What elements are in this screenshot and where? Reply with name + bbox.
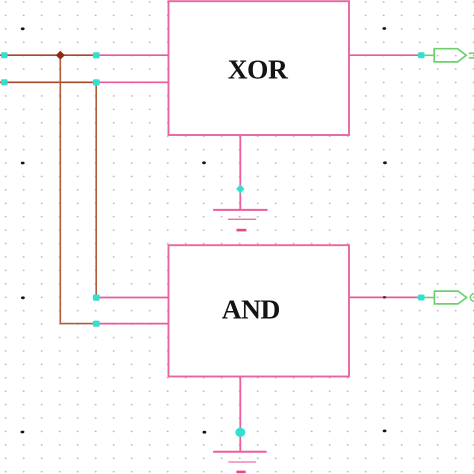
ground symbol under XOR : bar 3 — [237, 229, 247, 232]
grid major dot (22.7,163) — [21, 162, 25, 165]
AND gate box U2 — [169, 245, 350, 376]
wire: AND output pink segment — [349, 296, 421, 298]
clipped net label at right edge (AND output) — [470, 294, 474, 302]
wire: net B branch pink segment into AND input 1 — [96, 297, 168, 299]
ground symbol under AND : bar 2 — [228, 461, 256, 463]
wire: net A branch pink segment into AND input 2 — [96, 323, 168, 325]
grid major dot (383.7,297.2) over output wire — [383, 296, 386, 299]
wire: net B pink segment into XOR input 2 — [96, 81, 168, 83]
wire: net A branch horizontal to AND input 2 (brown) — [60, 323, 96, 325]
wire: AND ground stub (pink vertical) — [239, 377, 241, 452]
wire: XOR ground stub (pink vertical) — [239, 135, 241, 210]
grid major dot (22.9,297.8) — [21, 296, 25, 299]
wire: XOR output pink segment — [349, 54, 421, 56]
node: pin square net B at AND input 1 — [93, 295, 100, 301]
node: pin square at XOR output — [418, 52, 425, 58]
ground symbol under XOR : bar 2 — [228, 218, 256, 220]
grid major dot (385,163) — [383, 161, 387, 164]
node: pin square net B at XOR input 2 — [93, 79, 100, 85]
grid major dot (384.6,430.9) — [383, 430, 387, 433]
svg-text:XOR: XOR — [228, 54, 289, 85]
grid major dot (22.4,432) — [21, 431, 25, 434]
output port symbol (sum) after XOR — [434, 49, 466, 62]
wire: net A vertical branch down (brown) — [59, 55, 61, 323]
clipped net label at right edge (XOR output) — [469, 52, 474, 54]
wire: net A pink segment into XOR input 1 — [96, 54, 168, 56]
ground symbol under AND : bar 1 — [213, 451, 267, 453]
grid major dot (383.7,28.8) — [382, 27, 386, 30]
wire: short green lead to AND output port — [425, 297, 435, 299]
ground symbol under XOR : bar 1 — [213, 209, 268, 211]
node: pin square net B at left edge — [1, 79, 8, 85]
svg-text:AND: AND — [222, 294, 280, 325]
ground symbol under AND : bar 3 — [236, 471, 245, 474]
wire: short green lead to XOR output port — [425, 54, 435, 56]
grid major dot (22.7,28.8) — [21, 27, 25, 30]
wire: net B vertical branch down (brown) — [95, 82, 97, 297]
node: pin square at AND output — [418, 295, 425, 301]
grid major dot (204.4,432.2) — [203, 431, 207, 434]
wire: net A horizontal segment from left edge (brown) — [0, 54, 96, 56]
node: pin square net A at left edge — [1, 52, 8, 58]
node: pin marker on AND ground stub — [235, 428, 245, 437]
XOR gate box U1 — [169, 1, 350, 135]
node: pin square net A at AND input 2 — [93, 321, 100, 327]
grid major dot (204,163) — [202, 161, 206, 164]
junction diamond on net A — [56, 51, 65, 60]
node: pin square net A at XOR input 1 — [93, 52, 100, 58]
output port symbol (carry) after AND — [434, 291, 466, 304]
node: pin marker on XOR ground stub — [236, 185, 244, 194]
wire: net B horizontal segment from left edge (brown) — [0, 81, 96, 83]
